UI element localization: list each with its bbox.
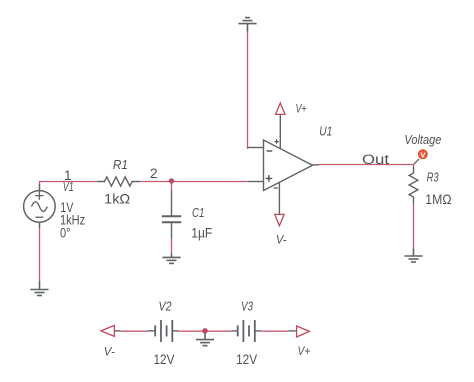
wire: node 2 down to C1 [171, 181, 173, 190]
capacitor C1 [162, 190, 181, 238]
svg-text:1kΩ: 1kΩ [104, 191, 130, 207]
ground (below V1) [30, 281, 48, 296]
wire: V1 to ground [39, 228, 41, 281]
ground (top, inverted) [238, 18, 256, 32]
battery V3 [231, 320, 261, 342]
voltage probe [418, 150, 427, 159]
ground (center bottom) [196, 333, 214, 346]
U1 non-inverting input plus symbol [266, 175, 273, 182]
V- rail arrow (left) [101, 325, 114, 336]
U1 inverting input minus symbol [267, 150, 273, 152]
svg-text:12V: 12V [154, 351, 176, 367]
U1 positive supply plus symbol [274, 139, 278, 143]
op-amp U1 [248, 115, 312, 214]
ground (below R3) [404, 248, 422, 262]
svg-text:V-: V- [104, 347, 115, 359]
wire: V- arrow to V2 [120, 330, 147, 332]
svg-text:1µF: 1µF [191, 225, 212, 241]
wire: op-amp output to node Out [319, 164, 414, 167]
wire: V2 to center junction [179, 330, 232, 332]
V1 value labels [60, 199, 85, 240]
V- power arrow [275, 214, 284, 225]
svg-text:R3: R3 [427, 170, 440, 185]
U1 negative supply minus symbol [274, 187, 278, 189]
svg-text:V-: V- [276, 235, 287, 247]
svg-text:2: 2 [150, 166, 158, 181]
svg-text:1MΩ: 1MΩ [425, 191, 451, 207]
svg-text:12V: 12V [236, 351, 258, 367]
wire: R3 to ground [413, 204, 415, 249]
resistor R1 [97, 177, 139, 186]
ground (below C1) [162, 253, 180, 263]
svg-text:V+: V+ [296, 104, 307, 116]
voltage probe pointer [414, 159, 419, 164]
wire: R1 to op-amp non-inverting input [140, 181, 249, 183]
V+ power arrow [276, 103, 285, 114]
svg-text:V3: V3 [241, 299, 254, 314]
svg-text:V+: V+ [298, 346, 311, 358]
svg-text:U1: U1 [319, 125, 332, 139]
wire: C1 to ground [171, 238, 173, 253]
wire: top ground to op-amp inverting input [247, 32, 249, 148]
svg-text:0°: 0° [60, 224, 71, 240]
svg-text:V: V [420, 151, 425, 160]
svg-text:R1: R1 [113, 157, 128, 172]
svg-text:Out: Out [362, 152, 389, 167]
svg-text:Voltage: Voltage [404, 133, 441, 147]
junction dot node 2 [169, 178, 174, 183]
op-amp output pin stub [313, 164, 320, 166]
wire: V1 to R1 [39, 181, 97, 184]
V+ rail stub [289, 330, 297, 332]
V+ rail arrow (right) [297, 326, 310, 337]
svg-text:C1: C1 [192, 205, 205, 220]
ac source V1 [24, 184, 56, 228]
junction dot (center rail) [202, 328, 208, 334]
svg-text:V2: V2 [159, 299, 173, 314]
resistor R3 [409, 167, 418, 204]
battery V2 [148, 320, 179, 342]
wire: elbow into inverting input lead [247, 148, 249, 150]
wire: V3 to V+ arrow [261, 330, 288, 332]
V- rail stub [114, 330, 120, 332]
